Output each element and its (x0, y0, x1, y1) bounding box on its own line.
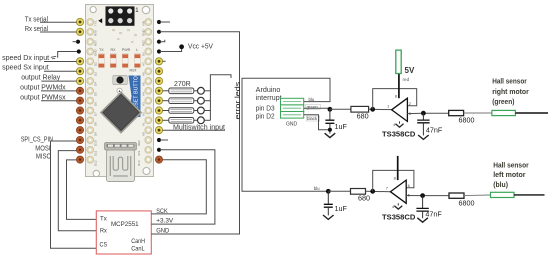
wire hall 2 to edge (514, 194, 545, 196)
header pin Tx-serial (76, 18, 83, 25)
mounting hole top-right (142, 6, 149, 13)
wire node R4 to Vcc bullet (160, 49, 182, 52)
svg-text:D4: D4 (94, 82, 98, 86)
feedback wire loop op-amp 2 (373, 170, 414, 191)
wire op-amp1 pin3 to node C1o (407, 112, 448, 114)
wire stub node REF (160, 139, 168, 141)
header pin L10 (76, 107, 83, 114)
node L4 (77, 49, 81, 53)
LED RX (110, 54, 116, 68)
net label black (306, 116, 320, 121)
tiny silk labels right column (137, 21, 146, 166)
label Hall sensor left motor (blu) (493, 161, 529, 190)
header pin A6 (155, 68, 162, 75)
svg-text:MISO: MISO (36, 154, 52, 161)
svg-text:TX: TX (99, 48, 104, 52)
LED TX (99, 54, 105, 68)
svg-text:680: 680 (357, 111, 369, 120)
wire multiswitch stub (163, 129, 225, 131)
node R-VIN (157, 20, 161, 24)
ground symbol 47nF #2 (417, 218, 428, 222)
capacitor 47nF #1 (417, 113, 429, 135)
hall sensor connector 2 (491, 192, 515, 197)
header pin Rx-serial (76, 28, 83, 35)
header pin PWMdx (76, 87, 83, 94)
mini-USB connector (105, 143, 137, 182)
node REF (157, 138, 161, 142)
header pin A4 led1 (155, 87, 162, 94)
svg-text:black: black (307, 116, 318, 121)
header pin speed-Sx (76, 68, 83, 75)
svg-text:3V3: 3V3 (137, 150, 141, 156)
wire A1 to R680a (330, 108, 351, 110)
error LED D2 (194, 97, 211, 104)
SMD specks (112, 29, 137, 43)
wire MCP +3.3V to nano 3V3 (151, 150, 215, 224)
ground symbol 47nF #1 (418, 135, 429, 139)
MCU chip ATmega328 (diamond) (102, 93, 141, 132)
svg-text:Hall sensor: Hall sensor (492, 76, 527, 85)
wire 6800 to hall connector 2 (464, 194, 491, 197)
header pin D13-SCK (155, 156, 162, 163)
supply stub op-amp2 (397, 156, 399, 180)
svg-text:D6: D6 (94, 102, 98, 106)
nano PCB pads right column (145, 19, 152, 163)
svg-text:CanH: CanH (131, 238, 145, 245)
tick marks node L4 (51, 56, 56, 59)
pin numbers U3A (387, 93, 412, 127)
svg-text:REF: REF (137, 140, 141, 146)
op-amp U3A triangle (392, 98, 408, 121)
interrupt connector J2 (3 pin) (281, 98, 304, 118)
RESET BUTTON blue flag (129, 72, 141, 117)
wire blu net: connector pin1 up over and down to left op-amp row (242, 78, 330, 191)
svg-text:speed Dx input: speed Dx input (2, 55, 49, 62)
svg-text:blu: blu (314, 186, 320, 191)
svg-text:D8: D8 (94, 122, 98, 126)
svg-text:D3: D3 (94, 72, 98, 76)
wire Tx serial to pad (40, 21, 76, 23)
wire green net: connector pin2 to node A1 (304, 108, 330, 109)
wire black net: connector pin3 to GND node of C1 (304, 115, 330, 130)
svg-text:right motor: right motor (492, 87, 529, 96)
svg-text:error leds: error leds (233, 81, 242, 119)
svg-text:TS358CD: TS358CD (382, 130, 416, 139)
op-amp U3B triangle (390, 180, 406, 203)
svg-text:RST: RST (94, 40, 98, 46)
LED L (135, 54, 141, 68)
wire MCP SCK to nano D13 (151, 160, 206, 214)
svg-text:blu: blu (309, 97, 315, 102)
wire MCP GND to nano GND pin (151, 32, 239, 234)
wire op-amp2 pin5 to node C2o (406, 195, 449, 197)
resistor 270R #1 (163, 88, 194, 94)
svg-text:GND: GND (156, 227, 169, 234)
node R-5V (157, 49, 161, 53)
node B2 junction (370, 189, 375, 194)
header pin speed-Dx (76, 58, 83, 65)
wire PWMdx to pad (41, 90, 76, 92)
svg-text:CS: CS (100, 241, 108, 248)
header pin PWMsx (76, 97, 83, 104)
svg-text:interrupt: interrupt (256, 95, 282, 102)
svg-text:A3: A3 (142, 102, 146, 106)
header pin L12 (76, 127, 83, 134)
node R-RST (157, 40, 161, 44)
svg-text:+3.3V: +3.3V (156, 218, 173, 225)
hall sensor connector 1 (492, 110, 516, 115)
svg-text:6800: 6800 (459, 116, 475, 125)
wire node L4 elbow (58, 52, 77, 58)
node A1 junction (328, 107, 333, 112)
node B1 junction (370, 107, 375, 112)
wire MISO to MCP2551 Tx (67, 160, 97, 220)
svg-text:Rx: Rx (100, 228, 107, 235)
ground symbol op-amp1 pin4 (396, 121, 404, 127)
svg-text:speed Sx input: speed Sx input (2, 65, 49, 72)
header pin Relay (76, 77, 83, 84)
header pin L11 (76, 117, 83, 124)
header pin MOSI (76, 146, 83, 153)
svg-text:A1: A1 (142, 122, 146, 126)
wire Relay to pad (41, 80, 76, 82)
svg-text:D9: D9 (94, 132, 98, 136)
svg-text:output Relay: output Relay (21, 75, 61, 82)
svg-text:D13: D13 (137, 160, 141, 166)
resistor 270R #2 (163, 98, 194, 104)
5V connector (396, 50, 401, 73)
header pin A7 (155, 58, 162, 65)
wire SPI_CS to MCP2551 CS (51, 141, 97, 248)
wire R680a to node B1 (369, 108, 392, 110)
svg-text:pin D2: pin D2 (256, 114, 275, 121)
wire speed Sx to pad (44, 70, 76, 72)
svg-text:D11: D11 (94, 150, 98, 156)
svg-text:MCP2551: MCP2551 (111, 221, 139, 228)
svg-text:47nF: 47nF (426, 126, 443, 135)
svg-text:red: red (403, 77, 410, 82)
wire stub node L3 (73, 41, 77, 43)
label Hall sensor right motor (green) (492, 76, 529, 106)
svg-text:Arduino: Arduino (256, 87, 281, 94)
capacitor 47nF #2 (416, 196, 428, 219)
svg-text:1uF: 1uF (335, 204, 348, 213)
wire 6800 to hall connector 1 (464, 112, 492, 114)
node L3 (76, 40, 80, 44)
Arduino Nano U2 board (86, 4, 154, 176)
capacitor C1 1uF (325, 109, 334, 133)
svg-text:SPI_CS_PIN: SPI_CS_PIN (21, 137, 53, 144)
svg-text:CanL: CanL (131, 246, 145, 253)
svg-text:RX0: RX0 (94, 30, 98, 36)
marker circle (117, 88, 122, 93)
reset button SW1 (113, 75, 128, 84)
svg-text:(green): (green) (492, 97, 515, 106)
feedback wire loop op-amp 1 (373, 89, 417, 110)
resistor 6800 #2 (449, 193, 464, 198)
header pin A5 (155, 77, 162, 84)
mounting hole bottom-left (93, 170, 99, 176)
node C1o junction (421, 111, 426, 116)
capacitor C2 1uF (324, 191, 333, 215)
svg-text:left motor: left motor (493, 170, 525, 179)
resistor R680b (351, 189, 366, 195)
node 3V3 (157, 148, 161, 152)
mounting hole bottom-right (143, 168, 150, 175)
svg-text:5V: 5V (405, 66, 415, 75)
ground symbol op-amp2 pin4 (394, 203, 402, 209)
svg-text:PWR: PWR (122, 48, 131, 52)
svg-text:GND: GND (94, 49, 98, 57)
header pin SPI_CS (76, 136, 83, 143)
wire R680b to node B2 (366, 190, 391, 192)
node R-GND (157, 30, 161, 34)
svg-text:1uF: 1uF (335, 122, 348, 131)
Vcc +5V node (179, 44, 184, 49)
mounting hole top-left (90, 7, 96, 13)
resistor 270R #4 (163, 118, 194, 124)
wire MOSI to MCP2551 Rx (58, 151, 96, 231)
resistor 6800 #1 (449, 110, 464, 115)
ICSP header J1 (106, 6, 140, 25)
svg-text:6800: 6800 (459, 199, 475, 208)
pin numbers U3B (386, 175, 411, 209)
svg-text:D7: D7 (94, 112, 98, 116)
LED labels TX RX PWR L (99, 48, 138, 52)
svg-text:RST: RST (130, 69, 138, 73)
error LED D1 (194, 87, 211, 94)
svg-text:270R: 270R (174, 81, 191, 88)
wire stub node R1 (160, 21, 170, 23)
wire PWMsx to pad (41, 100, 76, 102)
5V supply wire to op-amp pin 8 (398, 74, 400, 99)
node C2o junction (420, 193, 425, 198)
node A2 junction (326, 189, 331, 194)
error leds bus wire (210, 75, 231, 121)
svg-text:A0: A0 (142, 132, 146, 136)
wire A2 to R680b (328, 190, 350, 192)
ground symbol C1 (325, 133, 336, 137)
header pin A2 led3 (155, 107, 162, 114)
wire stub pin A7 (163, 60, 166, 62)
LED PWR (122, 54, 128, 68)
svg-text:Multiswitch input: Multiswitch input (173, 124, 225, 131)
tiny silk labels left column (94, 20, 98, 166)
svg-text:A2: A2 (142, 112, 146, 116)
svg-text:GND: GND (286, 121, 298, 127)
wire Rx serial to pad (40, 31, 76, 33)
resistor R680a (351, 106, 369, 112)
header pin A1 led4 (155, 117, 162, 124)
ground symbol C2 (323, 215, 334, 219)
svg-text:D5: D5 (94, 92, 98, 96)
svg-text:(blu): (blu) (493, 180, 508, 189)
svg-text:D2: D2 (94, 62, 98, 66)
header pin MISO (76, 156, 83, 163)
svg-text:TS358CD: TS358CD (382, 212, 416, 221)
svg-text:Vcc +5V: Vcc +5V (188, 43, 213, 50)
svg-text:TX1: TX1 (94, 20, 98, 26)
svg-text:Tx: Tx (100, 215, 107, 222)
header pin A0 multiswitch (155, 127, 162, 134)
wire hall 1 to edge (515, 112, 548, 114)
MCP2551 U1 (96, 211, 151, 254)
wire speed Dx to pad (44, 61, 76, 63)
node GND junction below C1 (328, 128, 332, 132)
resistor 270R #3 (163, 108, 194, 114)
svg-text:D10: D10 (94, 140, 98, 146)
svg-text:680: 680 (358, 193, 370, 202)
svg-text:RX: RX (111, 48, 117, 52)
net label green (306, 104, 321, 109)
svg-text:MOSI: MOSI (35, 145, 50, 152)
error LED D3 (194, 107, 211, 114)
svg-text:Hall sensor: Hall sensor (493, 161, 529, 170)
svg-text:D12: D12 (94, 160, 98, 166)
svg-text:pin D3: pin D3 (256, 105, 275, 112)
svg-text:47nF: 47nF (425, 210, 442, 219)
pin1 marker wedge (98, 18, 102, 23)
error LED D4 (194, 117, 211, 124)
header pin A3 led2 (155, 97, 162, 104)
nano PCB pads left column (87, 19, 94, 163)
wire stub node R3 (160, 40, 165, 42)
svg-text:L: L (136, 48, 138, 52)
